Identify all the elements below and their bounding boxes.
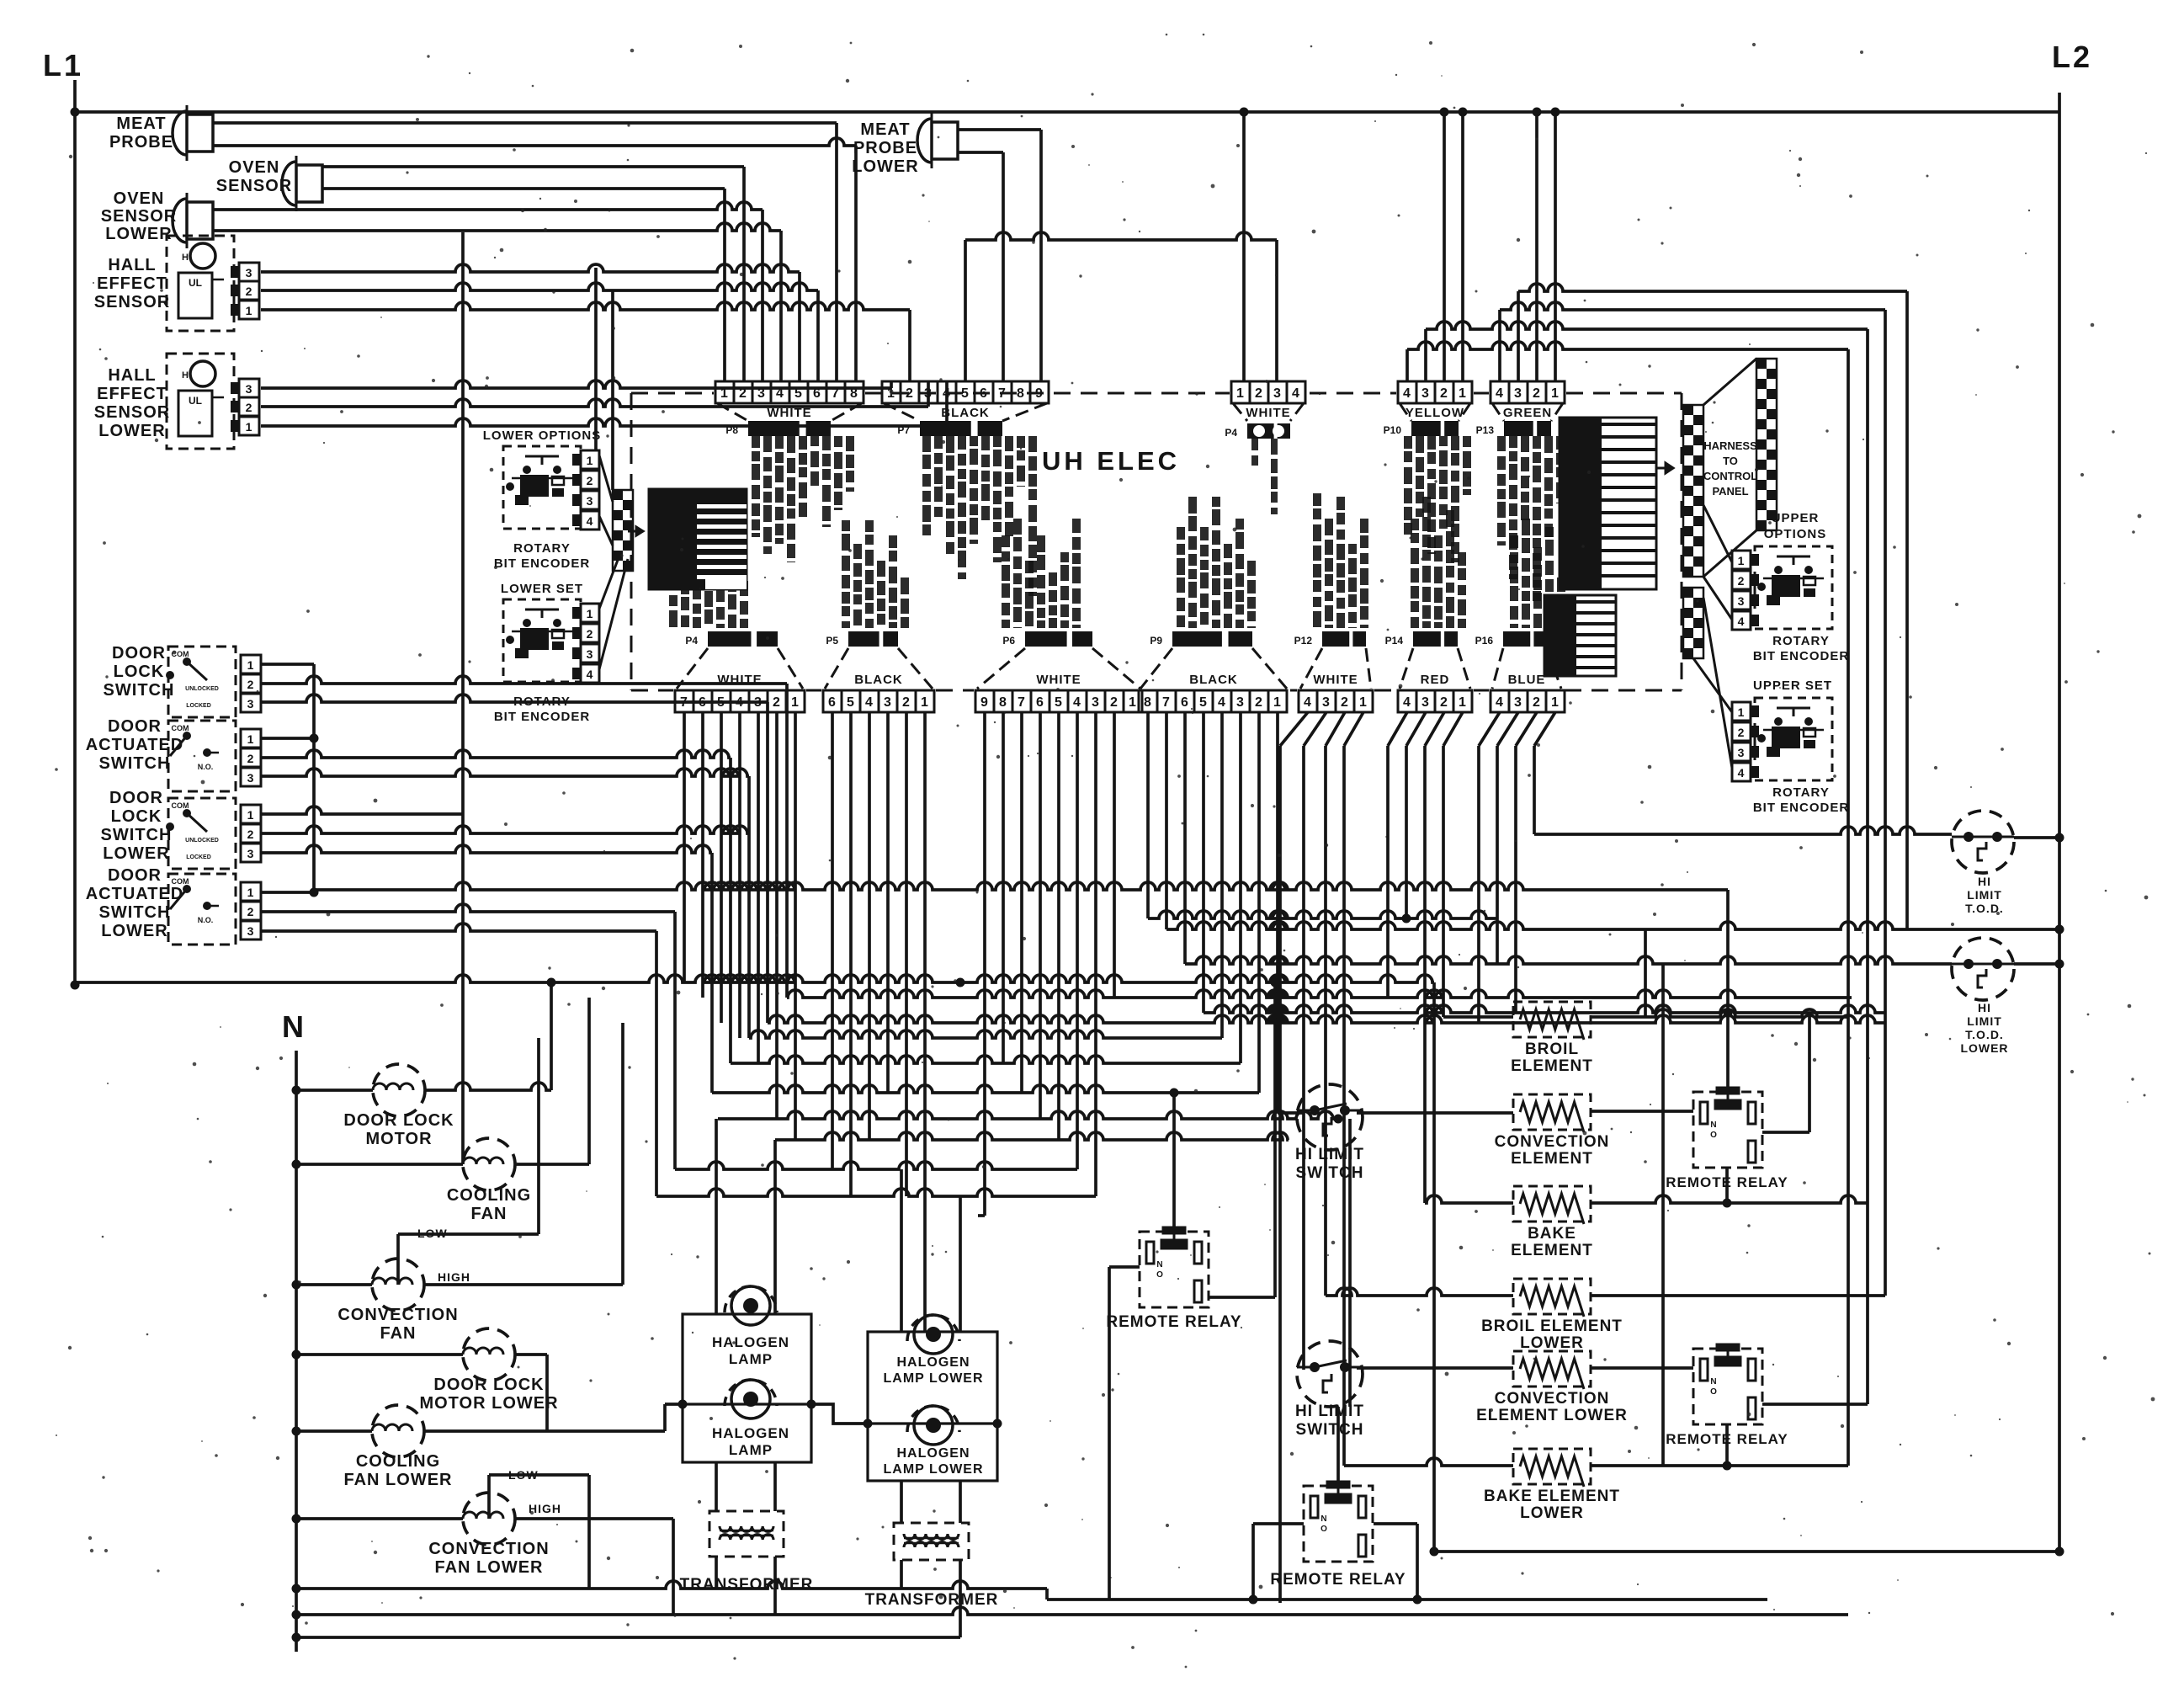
svg-text:3: 3 [1236,695,1245,710]
svg-text:1: 1 [246,420,253,434]
svg-text:2: 2 [1440,386,1448,401]
svg-text:LOCK: LOCK [114,663,165,681]
svg-text:ELEMENT LOWER: ELEMENT LOWER [1476,1407,1628,1424]
svg-text:CONVECTION: CONVECTION [1495,1390,1610,1408]
svg-text:1: 1 [1236,386,1245,401]
svg-text:ROTARY: ROTARY [1772,634,1830,648]
svg-text:5: 5 [847,695,855,710]
svg-text:3: 3 [1421,386,1430,401]
svg-text:MOTOR LOWER: MOTOR LOWER [419,1394,558,1413]
svg-text:2: 2 [587,474,594,487]
svg-text:P9: P9 [1150,635,1162,647]
svg-text:2: 2 [1738,726,1746,739]
svg-text:4: 4 [1403,695,1411,710]
svg-text:O: O [1156,1270,1163,1280]
svg-text:3: 3 [1273,386,1282,401]
svg-text:6: 6 [1181,695,1189,710]
svg-text:2: 2 [1255,386,1263,401]
svg-text:3: 3 [587,647,594,661]
svg-text:7: 7 [1162,695,1171,710]
svg-text:HIGH: HIGH [438,1270,470,1284]
svg-text:2: 2 [247,905,255,918]
svg-text:SENSOR: SENSOR [94,403,170,422]
svg-text:COM: COM [172,801,189,810]
svg-text:P5: P5 [826,635,838,647]
svg-text:N: N [1156,1260,1162,1269]
svg-text:DOOR: DOOR [108,717,162,736]
svg-text:GREEN: GREEN [1503,406,1552,420]
svg-text:ROTARY: ROTARY [513,541,571,556]
svg-text:RED: RED [1421,673,1450,687]
svg-text:HARNESS: HARNESS [1703,439,1757,452]
svg-text:LOWER: LOWER [105,225,172,243]
svg-text:LIMIT: LIMIT [1967,888,2002,902]
svg-text:CONVECTION: CONVECTION [1495,1133,1610,1151]
svg-text:LOWER: LOWER [1960,1041,2008,1055]
svg-text:OPTIONS: OPTIONS [1764,527,1827,541]
svg-text:SWITCH: SWITCH [1296,1421,1364,1439]
svg-text:3: 3 [587,494,594,508]
svg-text:4: 4 [587,514,594,528]
svg-text:3: 3 [1738,594,1746,608]
svg-text:N: N [282,1009,304,1044]
svg-text:O: O [1710,1131,1717,1140]
svg-text:4: 4 [1738,766,1746,780]
svg-text:LAMP LOWER: LAMP LOWER [883,1462,983,1477]
svg-text:3: 3 [247,847,255,860]
svg-text:HI: HI [1978,875,1991,888]
svg-text:ROTARY: ROTARY [1772,785,1830,800]
svg-text:1: 1 [1738,705,1746,719]
svg-text:1: 1 [921,695,929,710]
svg-text:UNLOCKED: UNLOCKED [185,838,219,844]
svg-text:UH ELEC: UH ELEC [1042,446,1180,476]
svg-text:SWITCH: SWITCH [1296,1164,1364,1182]
svg-text:YELLOW: YELLOW [1406,406,1464,420]
svg-text:BIT ENCODER: BIT ENCODER [494,556,590,571]
svg-text:O: O [1320,1525,1327,1534]
svg-text:CONVECTION: CONVECTION [428,1540,549,1558]
svg-text:UNLOCKED: UNLOCKED [185,686,219,692]
svg-text:SENSOR: SENSOR [101,207,177,226]
svg-text:LOWER SET: LOWER SET [501,582,583,596]
svg-text:N: N [1320,1514,1326,1524]
svg-text:2: 2 [1255,695,1263,710]
svg-text:HALL: HALL [108,256,156,274]
svg-text:LOWER: LOWER [103,844,169,863]
svg-text:UL: UL [189,395,202,407]
svg-text:BIT ENCODER: BIT ENCODER [1753,649,1849,663]
svg-text:8: 8 [1017,386,1025,401]
svg-text:BLACK: BLACK [854,673,903,687]
svg-text:1: 1 [1459,386,1467,401]
svg-text:LOCKED: LOCKED [186,854,211,860]
svg-text:T.O.D.: T.O.D. [1965,1028,2004,1041]
svg-text:HALOGEN: HALOGEN [897,1355,970,1370]
svg-text:1: 1 [587,607,594,620]
svg-text:LOCKED: LOCKED [186,703,211,709]
svg-text:3: 3 [247,924,255,938]
svg-text:BAKE ELEMENT: BAKE ELEMENT [1484,1488,1620,1505]
svg-text:DOOR LOCK: DOOR LOCK [343,1111,454,1130]
svg-text:2: 2 [1533,695,1541,710]
svg-text:N.O.: N.O. [198,763,214,771]
svg-text:L2: L2 [2052,40,2092,74]
svg-text:UPPER: UPPER [1772,511,1820,525]
svg-text:DOOR: DOOR [109,789,163,807]
svg-text:HI LIMIT: HI LIMIT [1295,1146,1364,1163]
svg-text:HALOGEN: HALOGEN [897,1446,970,1461]
svg-text:FAN LOWER: FAN LOWER [435,1558,544,1577]
svg-text:4: 4 [865,695,874,710]
svg-text:4: 4 [1496,386,1504,401]
svg-text:BLUE: BLUE [1508,673,1546,687]
svg-text:LOWER OPTIONS: LOWER OPTIONS [483,428,602,443]
svg-text:P4: P4 [685,635,698,647]
svg-text:WHITE: WHITE [1246,406,1290,420]
svg-text:1: 1 [1738,554,1746,567]
svg-text:BAKE: BAKE [1528,1225,1576,1243]
svg-text:OVEN: OVEN [114,189,165,208]
svg-text:LOWER: LOWER [98,422,165,440]
svg-text:2: 2 [902,695,911,710]
svg-text:LOWER: LOWER [1520,1334,1584,1352]
svg-text:3: 3 [1514,695,1522,710]
svg-text:LAMP LOWER: LAMP LOWER [883,1371,983,1386]
svg-text:2: 2 [1738,574,1746,588]
svg-text:P10: P10 [1384,424,1402,436]
svg-text:2: 2 [587,627,594,641]
svg-text:LAMP: LAMP [729,1351,773,1367]
svg-text:3: 3 [1322,695,1331,710]
svg-text:2: 2 [246,285,253,298]
svg-text:COOLING: COOLING [356,1452,440,1471]
svg-text:TRANSFORMER: TRANSFORMER [680,1576,814,1594]
svg-text:1: 1 [247,732,255,746]
svg-text:2: 2 [1110,695,1119,710]
svg-text:6: 6 [1036,695,1044,710]
svg-text:7: 7 [1018,695,1026,710]
svg-text:HALOGEN: HALOGEN [712,1334,789,1350]
svg-text:3: 3 [247,771,255,785]
svg-text:MEAT: MEAT [116,114,166,133]
svg-text:3: 3 [1514,386,1522,401]
svg-text:UPPER SET: UPPER SET [1753,679,1832,693]
svg-text:2: 2 [1533,386,1541,401]
svg-text:LOWER: LOWER [101,922,167,940]
svg-text:MEAT: MEAT [860,120,910,139]
svg-text:COM: COM [172,877,189,886]
svg-text:4: 4 [1496,695,1504,710]
svg-text:BIT ENCODER: BIT ENCODER [1753,801,1849,815]
svg-text:FAN: FAN [380,1324,417,1343]
svg-text:HALL: HALL [108,366,156,385]
svg-text:SENSOR: SENSOR [94,293,170,311]
svg-text:1: 1 [247,886,255,899]
svg-text:4: 4 [1073,695,1081,710]
svg-text:2: 2 [247,828,255,841]
svg-text:1: 1 [1359,695,1368,710]
svg-text:ELEMENT: ELEMENT [1511,1150,1593,1168]
svg-text:BROIL: BROIL [1525,1041,1579,1058]
svg-text:6: 6 [828,695,837,710]
svg-text:P12: P12 [1294,635,1313,647]
svg-text:4: 4 [587,668,594,681]
svg-text:COOLING: COOLING [447,1186,531,1205]
svg-text:OVEN: OVEN [229,158,280,177]
svg-text:ELEMENT: ELEMENT [1511,1057,1593,1075]
svg-text:TO: TO [1723,455,1738,467]
svg-text:UL: UL [189,277,202,289]
svg-text:REMOTE RELAY: REMOTE RELAY [1270,1571,1406,1589]
svg-text:H: H [182,253,189,263]
svg-text:1: 1 [791,695,800,710]
svg-text:EFFECT: EFFECT [97,274,167,293]
svg-text:SWITCH: SWITCH [101,826,173,844]
svg-text:3: 3 [1738,746,1746,759]
svg-text:ELEMENT: ELEMENT [1511,1242,1593,1259]
svg-text:3: 3 [1421,695,1430,710]
svg-text:3: 3 [246,266,253,279]
svg-text:4: 4 [1218,695,1226,710]
svg-text:1: 1 [246,304,253,317]
svg-text:FAN: FAN [471,1205,507,1223]
svg-text:O: O [1710,1387,1717,1397]
svg-text:PANEL: PANEL [1712,485,1748,498]
svg-text:4: 4 [1738,615,1746,628]
svg-text:H: H [182,370,189,381]
svg-text:3: 3 [1092,695,1100,710]
svg-text:REMOTE RELAY: REMOTE RELAY [1106,1313,1241,1331]
svg-text:LOWER: LOWER [1520,1504,1584,1522]
svg-text:LAMP: LAMP [729,1442,773,1458]
svg-text:4: 4 [1292,386,1300,401]
svg-text:BIT ENCODER: BIT ENCODER [494,710,590,724]
svg-text:1: 1 [1551,695,1560,710]
svg-text:WHITE: WHITE [1313,673,1358,687]
svg-text:4: 4 [1403,386,1411,401]
svg-text:P6: P6 [1002,635,1015,647]
svg-text:HALOGEN: HALOGEN [712,1425,789,1441]
svg-text:P13: P13 [1476,424,1495,436]
svg-text:N: N [1710,1120,1716,1130]
svg-text:BROIL ELEMENT: BROIL ELEMENT [1481,1317,1623,1335]
svg-text:3: 3 [884,695,892,710]
svg-text:P4: P4 [1225,427,1237,439]
svg-text:1: 1 [247,658,255,672]
svg-text:1: 1 [1551,386,1560,401]
svg-text:N.O.: N.O. [198,916,214,924]
svg-text:2: 2 [1440,695,1448,710]
svg-text:2: 2 [246,401,253,414]
svg-text:1: 1 [1129,695,1137,710]
svg-text:DOOR: DOOR [108,866,162,885]
svg-text:9: 9 [980,695,989,710]
svg-text:MOTOR: MOTOR [365,1130,432,1148]
svg-text:8: 8 [999,695,1007,710]
svg-text:LOWER: LOWER [852,157,918,176]
svg-text:P14: P14 [1385,635,1404,647]
svg-text:2: 2 [1341,695,1349,710]
svg-text:L1: L1 [43,48,83,83]
svg-text:P16: P16 [1475,635,1494,647]
svg-text:3: 3 [246,382,253,396]
svg-text:BLACK: BLACK [941,406,990,420]
svg-text:SWITCH: SWITCH [99,903,171,922]
svg-text:1: 1 [1273,695,1282,710]
svg-text:DOOR LOCK: DOOR LOCK [433,1376,544,1394]
svg-text:EFFECT: EFFECT [97,385,167,403]
svg-text:LIMIT: LIMIT [1967,1014,2002,1028]
svg-text:PROBE: PROBE [853,139,917,157]
svg-text:4: 4 [1304,695,1312,710]
svg-text:2: 2 [773,695,781,710]
svg-text:3: 3 [247,697,255,711]
svg-text:N: N [1710,1377,1716,1387]
svg-text:2: 2 [247,678,255,691]
svg-text:LOCK: LOCK [111,807,162,826]
svg-text:5: 5 [1199,695,1208,710]
svg-text:1: 1 [247,808,255,822]
svg-text:8: 8 [1144,695,1152,710]
svg-text:CONVECTION: CONVECTION [337,1306,458,1324]
svg-text:CONTROL: CONTROL [1703,470,1757,482]
svg-text:PROBE: PROBE [109,133,173,152]
svg-text:DOOR: DOOR [112,644,166,663]
svg-text:TRANSFORMER: TRANSFORMER [865,1591,999,1609]
svg-text:2: 2 [247,752,255,765]
svg-text:1: 1 [1459,695,1467,710]
svg-text:COM: COM [172,724,189,732]
svg-text:SWITCH: SWITCH [104,681,175,700]
svg-text:SWITCH: SWITCH [99,754,171,773]
svg-text:5: 5 [1055,695,1063,710]
svg-text:FAN LOWER: FAN LOWER [344,1471,453,1489]
svg-text:HI LIMIT: HI LIMIT [1295,1403,1364,1420]
svg-text:BLACK: BLACK [1189,673,1238,687]
svg-text:HI: HI [1978,1001,1991,1014]
svg-text:WHITE: WHITE [1036,673,1081,687]
svg-text:1: 1 [587,454,594,467]
